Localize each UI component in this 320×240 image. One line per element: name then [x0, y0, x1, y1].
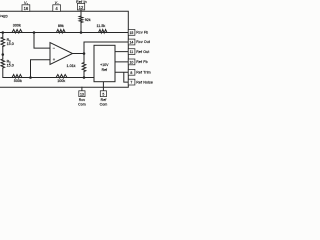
svg-text:Ref In: Ref In: [76, 0, 87, 4]
svg-text:Ref Trim: Ref Trim: [136, 71, 151, 75]
svg-text:13: 13: [80, 92, 84, 96]
svg-text:15.0: 15.0: [7, 63, 14, 67]
svg-text:Ref Fb: Ref Fb: [136, 60, 148, 64]
svg-text:Ref Out: Ref Out: [136, 50, 149, 54]
svg-text:89k: 89k: [58, 24, 64, 28]
svg-text:11: 11: [130, 50, 134, 54]
svg-text:5: 5: [102, 92, 104, 96]
svg-text:Ref: Ref: [101, 98, 107, 102]
svg-text:8: 8: [130, 71, 132, 75]
svg-text:7: 7: [130, 81, 132, 85]
svg-text:Ref: Ref: [102, 68, 107, 72]
svg-text:Ref Noise: Ref Noise: [136, 80, 153, 84]
svg-text:Rcv: Rcv: [79, 98, 85, 102]
svg-text:100k: 100k: [57, 79, 65, 83]
svg-text:12: 12: [79, 5, 84, 10]
svg-text:500k: 500k: [14, 79, 22, 83]
svg-text:P420: P420: [0, 15, 8, 19]
svg-text:1.01k: 1.01k: [67, 64, 76, 68]
svg-text:Rcv Fb: Rcv Fb: [136, 31, 148, 35]
svg-text:10: 10: [129, 60, 133, 64]
svg-text:14: 14: [129, 41, 133, 45]
svg-text:+10V: +10V: [100, 63, 109, 67]
svg-text:V+: V+: [24, 1, 28, 6]
svg-text:15: 15: [129, 31, 133, 35]
svg-text:300k: 300k: [13, 24, 21, 28]
svg-text:16: 16: [24, 6, 29, 11]
svg-text:15.0: 15.0: [7, 42, 14, 46]
svg-text:92k: 92k: [85, 18, 91, 22]
svg-text:Rcv Out: Rcv Out: [136, 40, 150, 44]
svg-text:Com: Com: [100, 103, 108, 107]
svg-text:V−: V−: [55, 1, 59, 6]
svg-text:Com: Com: [78, 103, 86, 107]
svg-text:11.5k: 11.5k: [97, 24, 106, 28]
